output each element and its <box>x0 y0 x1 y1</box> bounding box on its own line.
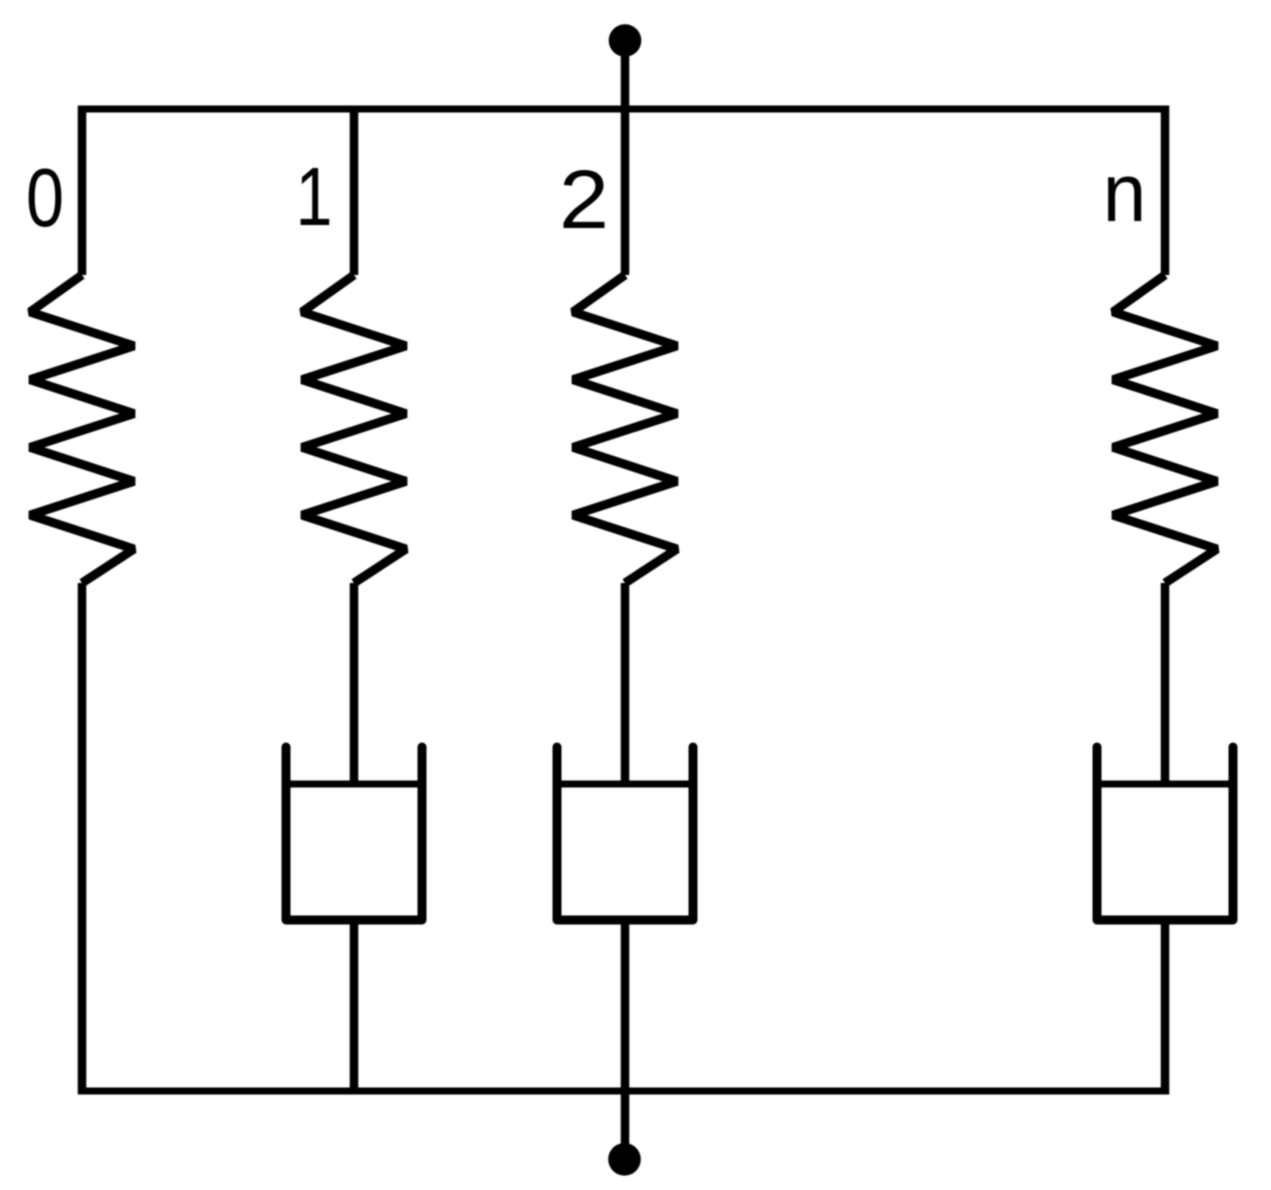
svg-text:n: n <box>1103 146 1147 239</box>
svg-text:1: 1 <box>296 150 333 243</box>
spring 1 <box>302 275 406 583</box>
wire branch 1 lower <box>350 920 359 1095</box>
wire branch 2 lower <box>621 920 630 1091</box>
dashpot 2 piston plate <box>557 781 693 788</box>
dashpot n cylinder <box>1097 747 1233 920</box>
wire branch n piston rod <box>1161 583 1170 786</box>
dashpot 1 piston plate <box>286 781 422 788</box>
wire branch 1 upper <box>350 106 359 276</box>
wire branch 0 upper <box>78 106 87 276</box>
svg-text:2: 2 <box>559 153 609 246</box>
wire bottom terminal stub <box>621 1087 630 1159</box>
node top terminal <box>609 24 642 57</box>
dashpot 2 cylinder <box>557 747 693 920</box>
wire top bus <box>79 106 1170 113</box>
spring 0 <box>30 275 134 583</box>
dashpot n piston plate <box>1097 781 1233 788</box>
wire branch n upper <box>1161 106 1170 276</box>
wire branch n lower <box>1161 920 1170 1095</box>
wire branch 1 piston rod <box>350 583 359 786</box>
spring 2 <box>573 275 677 583</box>
dashpot 1 cylinder <box>286 747 422 920</box>
wire branch 2 upper <box>621 113 630 275</box>
svg-text:0: 0 <box>26 151 64 244</box>
wire branch 2 piston rod <box>621 583 630 786</box>
node bottom terminal <box>608 1143 641 1176</box>
wire top terminal stub <box>621 40 630 113</box>
spring n <box>1113 275 1217 583</box>
wire bottom bus <box>79 1088 1168 1095</box>
wire branch 0 lower <box>78 583 87 1095</box>
